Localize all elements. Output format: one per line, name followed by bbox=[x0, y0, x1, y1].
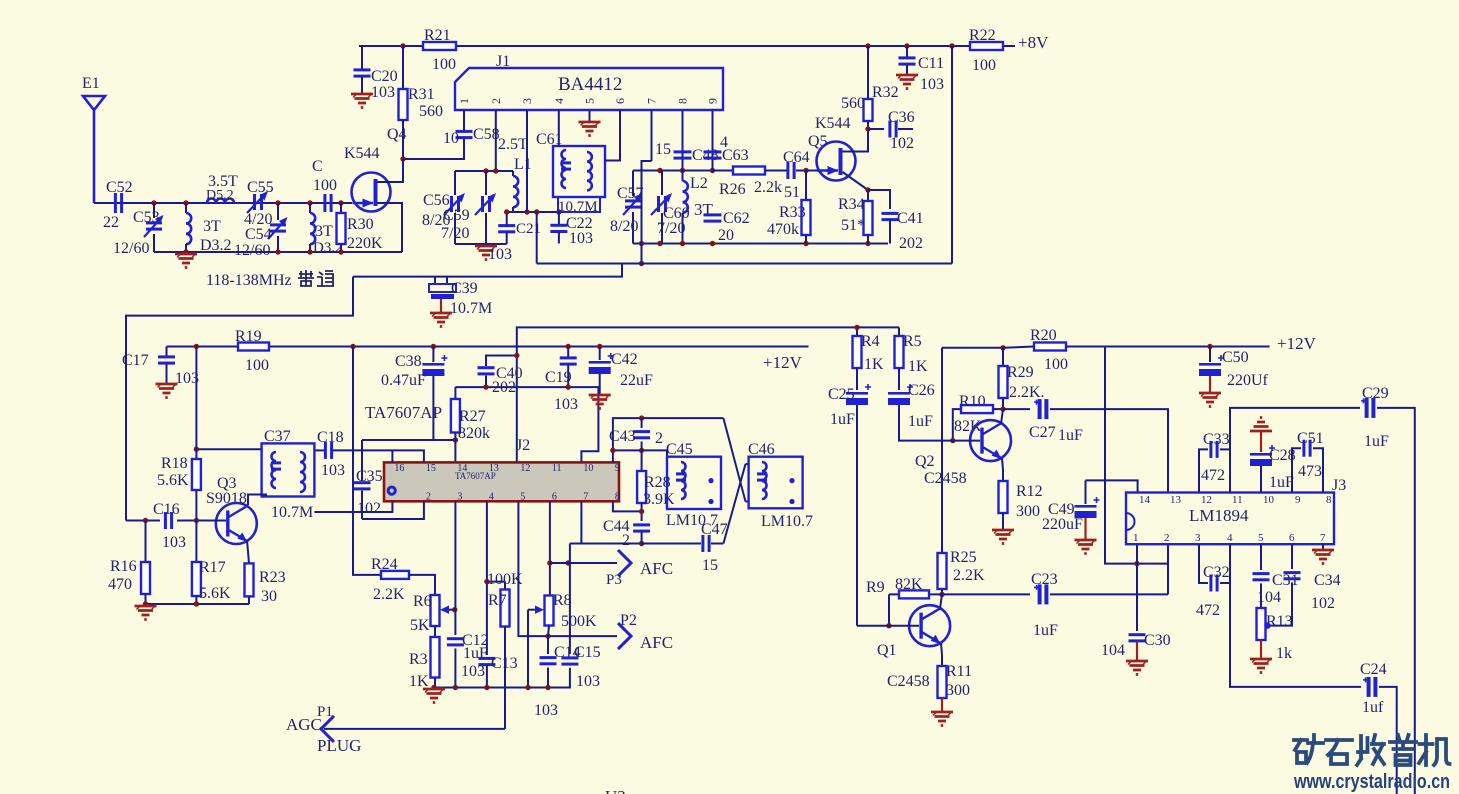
svg-text:www.crystalradio.cn: www.crystalradio.cn bbox=[1293, 771, 1450, 793]
svg-text:104: 104 bbox=[1257, 589, 1281, 606]
wire Q5 source bbox=[843, 172, 869, 190]
svg-text:3: 3 bbox=[457, 492, 462, 503]
svg-text:C26: C26 bbox=[908, 382, 935, 399]
svg-text:560: 560 bbox=[419, 103, 443, 120]
svg-text:1uF: 1uF bbox=[1269, 474, 1294, 491]
svg-text:82K: 82K bbox=[895, 576, 923, 593]
capacitor C41 bbox=[868, 190, 890, 209]
IC J3 LM1894 body bbox=[1126, 493, 1334, 545]
transformer C37 internals bbox=[272, 452, 277, 470]
wire pin3 drop bbox=[526, 110, 528, 212]
svg-text:R20: R20 bbox=[1030, 327, 1057, 344]
svg-text:C52: C52 bbox=[106, 179, 133, 196]
svg-text:14: 14 bbox=[1139, 494, 1151, 506]
svg-text:C50: C50 bbox=[1222, 349, 1249, 366]
svg-text:P2: P2 bbox=[620, 612, 637, 629]
svg-text:5: 5 bbox=[520, 492, 525, 503]
inductor L1 bbox=[512, 171, 514, 176]
resistor R16 bbox=[145, 521, 147, 563]
svg-text:C32: C32 bbox=[1203, 564, 1230, 581]
svg-text:3.9K: 3.9K bbox=[643, 491, 675, 508]
ground C39 bbox=[430, 313, 452, 327]
svg-text:R23: R23 bbox=[259, 569, 286, 586]
svg-text:2: 2 bbox=[426, 492, 431, 503]
wire B pin9 to C45 bbox=[613, 450, 667, 456]
svg-text:8: 8 bbox=[676, 98, 690, 104]
capacitor C33 bridge bbox=[1199, 449, 1208, 492]
svg-text:R7: R7 bbox=[488, 592, 507, 609]
node wireC junctions bbox=[639, 541, 644, 546]
svg-text:+8V: +8V bbox=[1018, 33, 1049, 52]
svg-text:AFC: AFC bbox=[640, 633, 673, 652]
transformer C37 bbox=[262, 443, 315, 496]
svg-text:8: 8 bbox=[1326, 494, 1332, 506]
ground tank1 bbox=[475, 246, 497, 260]
svg-text:2.2K: 2.2K bbox=[953, 567, 985, 584]
wire pin4 riser bbox=[486, 501, 488, 655]
svg-text:100: 100 bbox=[1044, 356, 1068, 373]
svg-text:51*: 51* bbox=[841, 217, 865, 234]
wire R25 column bbox=[941, 348, 943, 553]
svg-text:102: 102 bbox=[357, 500, 381, 517]
wire C15 column bbox=[569, 544, 571, 655]
svg-text:1: 1 bbox=[1133, 532, 1139, 544]
svg-text:C45: C45 bbox=[666, 441, 693, 458]
wire +8V top rail bbox=[359, 45, 1015, 47]
capacitor C38 electrolytic bbox=[432, 347, 434, 363]
svg-text:C19: C19 bbox=[545, 369, 572, 386]
svg-text:C24: C24 bbox=[1360, 661, 1387, 678]
wire P3 AFC bbox=[550, 562, 617, 564]
capacitor C59 variable bbox=[485, 171, 487, 195]
capacitor C24 bbox=[1367, 677, 1371, 697]
wire C35 top link W1 bbox=[362, 439, 456, 441]
capacitor C50 electrolytic bbox=[1209, 347, 1211, 363]
wire R8 bottom with C14 bbox=[548, 626, 549, 655]
svg-text:15: 15 bbox=[702, 557, 718, 574]
svg-text:6: 6 bbox=[1289, 532, 1295, 544]
resistor R30 bbox=[340, 203, 342, 213]
inductor L2 bbox=[682, 171, 684, 182]
svg-text:2.2K.: 2.2K. bbox=[1009, 384, 1045, 401]
resistor R4 bbox=[856, 327, 858, 336]
wire Q1 collector bbox=[940, 594, 942, 609]
svg-text:R22: R22 bbox=[969, 27, 996, 44]
resistor R24 bbox=[381, 571, 409, 579]
svg-text:7/20: 7/20 bbox=[657, 220, 685, 237]
wire C18 line to pins 16 15 bbox=[333, 450, 424, 462]
svg-text:R25: R25 bbox=[950, 549, 977, 566]
capacitor C21 bbox=[506, 212, 508, 225]
svg-text:15: 15 bbox=[655, 141, 671, 158]
node R29 top bbox=[1000, 345, 1005, 350]
svg-text:Q4: Q4 bbox=[387, 126, 407, 143]
resistor R7 bbox=[487, 581, 505, 583]
svg-text:C59: C59 bbox=[443, 207, 470, 224]
svg-text:Q1: Q1 bbox=[877, 642, 897, 659]
ground C49 bbox=[1075, 540, 1097, 554]
svg-text:9: 9 bbox=[615, 463, 620, 474]
svg-text:2: 2 bbox=[1164, 532, 1170, 544]
svg-text:10.7M: 10.7M bbox=[558, 199, 598, 215]
svg-text:R9: R9 bbox=[866, 579, 885, 596]
svg-text:5K: 5K bbox=[410, 617, 430, 634]
svg-text:C57: C57 bbox=[617, 185, 644, 202]
svg-text:100: 100 bbox=[972, 57, 996, 74]
svg-text:1uF: 1uF bbox=[1364, 433, 1389, 450]
svg-text:C55: C55 bbox=[247, 179, 274, 196]
capacitor C63 bbox=[712, 110, 714, 171]
capacitor C51 bridge bbox=[1292, 448, 1301, 492]
capacitor C 100 bbox=[323, 194, 326, 212]
svg-text:TA7607AP: TA7607AP bbox=[365, 403, 442, 422]
resistor R29 bbox=[1002, 348, 1004, 366]
wire R9 hook to base bbox=[888, 594, 890, 625]
svg-text:C35: C35 bbox=[356, 468, 383, 485]
svg-text:R16: R16 bbox=[110, 558, 137, 575]
wire +12V rail middle bbox=[167, 346, 809, 348]
svg-text:C34: C34 bbox=[1314, 572, 1341, 589]
resistor R34 bbox=[867, 190, 869, 201]
wire Q2 collector bbox=[1001, 409, 1003, 424]
resistor R6 potentiometer bbox=[431, 595, 440, 626]
svg-text:7: 7 bbox=[645, 98, 659, 104]
capacitor C47 bbox=[701, 535, 704, 552]
svg-text:10.7M: 10.7M bbox=[450, 300, 492, 317]
capacitor C22 bbox=[558, 212, 560, 225]
ground C20 bbox=[351, 94, 373, 108]
ground R13 bbox=[1250, 659, 1272, 673]
svg-text:10: 10 bbox=[1263, 494, 1275, 506]
ground C11 bbox=[896, 75, 918, 89]
svg-text:470: 470 bbox=[108, 576, 132, 593]
svg-text:7: 7 bbox=[1320, 532, 1326, 544]
svg-text:30: 30 bbox=[261, 588, 277, 605]
capacitor C55 variable bbox=[253, 194, 256, 210]
node R6 wiper junction bbox=[452, 607, 457, 612]
svg-text:4: 4 bbox=[552, 98, 566, 104]
svg-text:9: 9 bbox=[1295, 494, 1301, 506]
svg-text:D5.2: D5.2 bbox=[206, 188, 234, 203]
svg-text:R31: R31 bbox=[408, 86, 435, 103]
resistor R27 bbox=[454, 387, 456, 399]
svg-text:4: 4 bbox=[1227, 532, 1233, 544]
svg-text:BA4412: BA4412 bbox=[558, 74, 622, 95]
resistor R12 bbox=[999, 481, 1008, 513]
capacitor C19 bbox=[567, 347, 569, 358]
svg-text:K544: K544 bbox=[815, 115, 851, 132]
resistor R32 bbox=[867, 46, 869, 99]
svg-text:103: 103 bbox=[576, 673, 600, 690]
resistor R5 bbox=[898, 327, 900, 336]
node R27 bottom bbox=[453, 437, 458, 442]
wire pin3 riser with C12 bbox=[454, 501, 456, 635]
capacitor C54 variable bbox=[277, 203, 279, 220]
wire tank2 bottom rail bbox=[633, 243, 888, 245]
svg-text:1K: 1K bbox=[409, 673, 429, 690]
svg-text:C29: C29 bbox=[1362, 385, 1389, 402]
svg-text:5: 5 bbox=[583, 98, 597, 104]
svg-text:10.7M: 10.7M bbox=[271, 504, 313, 521]
svg-text:820k: 820k bbox=[458, 425, 490, 442]
wire C49 to pin14 bbox=[1086, 480, 1138, 492]
wire IF bus lower bbox=[353, 264, 622, 277]
svg-text:10: 10 bbox=[443, 130, 459, 147]
node filter bottom junctions bbox=[183, 249, 188, 254]
svg-text:22: 22 bbox=[103, 214, 119, 231]
svg-text:R10: R10 bbox=[959, 393, 986, 410]
svg-text:C53: C53 bbox=[133, 209, 160, 226]
svg-text:300: 300 bbox=[1016, 503, 1040, 520]
capacitor C57 variable bbox=[632, 171, 634, 197]
wire IF bus upper bbox=[537, 263, 952, 265]
svg-text:C54: C54 bbox=[245, 226, 272, 243]
wire R24 feed bbox=[353, 347, 381, 575]
capacitor C44 bbox=[633, 523, 650, 526]
svg-text:R5: R5 bbox=[903, 333, 922, 350]
wire Q3 base bbox=[126, 520, 160, 522]
wire Q3 bottom rail bbox=[146, 603, 250, 605]
resistor R10 bbox=[953, 409, 961, 441]
svg-text:12: 12 bbox=[520, 463, 530, 474]
wire R8 wiper bbox=[528, 609, 535, 611]
ground C28 inverted bbox=[1250, 418, 1272, 432]
node C40 junctions bbox=[514, 353, 519, 358]
capacitor C32 bridge bbox=[1199, 544, 1208, 583]
svg-text:103: 103 bbox=[321, 462, 345, 479]
capacitor C49 electrolytic bbox=[1085, 480, 1087, 504]
wire Q2 emitter to R12 bbox=[1002, 458, 1003, 481]
svg-text:8: 8 bbox=[615, 492, 620, 503]
svg-text:3T: 3T bbox=[315, 223, 333, 240]
wire to IF bus bbox=[536, 212, 538, 264]
svg-text:13: 13 bbox=[1170, 494, 1182, 506]
wire Q4 drain bbox=[378, 159, 404, 182]
wire input filter rail bbox=[94, 202, 352, 204]
resistor R19 bbox=[238, 343, 269, 351]
node R33 top bbox=[803, 168, 808, 173]
wire W5 12V branch bbox=[942, 347, 1003, 349]
node tank1 output junctions bbox=[504, 209, 509, 214]
node Q5 drain junction bbox=[865, 126, 870, 131]
svg-text:+12V: +12V bbox=[763, 353, 803, 372]
wire Q1 emitter bbox=[941, 643, 942, 666]
capacitor C36 bbox=[868, 128, 884, 130]
svg-text:R17: R17 bbox=[199, 559, 226, 576]
svg-text:12/60: 12/60 bbox=[113, 240, 149, 257]
ground C50 bbox=[1199, 393, 1221, 407]
svg-text:220K: 220K bbox=[347, 235, 383, 252]
svg-text:AFC: AFC bbox=[640, 559, 673, 578]
node Q3 collector junction bbox=[194, 447, 199, 452]
svg-text:E1: E1 bbox=[82, 75, 100, 92]
svg-text:R26: R26 bbox=[719, 181, 746, 198]
arrow P1 bbox=[321, 716, 334, 742]
node tank1 top junctions bbox=[483, 168, 488, 173]
arrow P2 AFC bbox=[618, 623, 631, 649]
svg-text:R3: R3 bbox=[409, 651, 428, 668]
svg-text:0.47uF: 0.47uF bbox=[381, 372, 426, 389]
svg-text:C33: C33 bbox=[1203, 431, 1230, 448]
svg-text:300: 300 bbox=[946, 682, 970, 699]
capacitor C17 bbox=[166, 347, 168, 357]
svg-text:5: 5 bbox=[1258, 532, 1264, 544]
wire W4 horizontal bbox=[455, 387, 598, 462]
resistor R28 bbox=[641, 450, 643, 471]
svg-text:103: 103 bbox=[162, 534, 186, 551]
svg-text:C30: C30 bbox=[1144, 632, 1171, 649]
svg-text:9: 9 bbox=[706, 98, 720, 104]
svg-text:100: 100 bbox=[313, 177, 337, 194]
wire tank2 top rail bbox=[633, 170, 713, 172]
ground R11 bbox=[931, 712, 953, 726]
wire C pin7 AFC line bbox=[570, 501, 582, 543]
wire Q1 base bbox=[857, 625, 919, 627]
svg-text:1uF: 1uF bbox=[1058, 427, 1083, 444]
svg-text:L1: L1 bbox=[514, 156, 532, 173]
resistor R23 bbox=[245, 563, 254, 596]
resistor R11 bbox=[938, 666, 947, 698]
capacitor C58 bbox=[463, 110, 465, 131]
capacitor C26 electrolytic bbox=[888, 392, 910, 395]
wire pin6 riser bbox=[549, 501, 551, 595]
svg-text:R29: R29 bbox=[1007, 364, 1034, 381]
svg-text:U2: U2 bbox=[605, 787, 626, 794]
svg-text:2.2K: 2.2K bbox=[373, 586, 405, 603]
svg-text:2: 2 bbox=[489, 98, 503, 104]
inductor 3T D3.2 second bbox=[309, 203, 311, 213]
inductor 3.5T D5.2 bbox=[207, 199, 234, 204]
node pin1 riser crossing bbox=[1134, 561, 1139, 566]
svg-text:22uF: 22uF bbox=[620, 372, 653, 389]
svg-text:R19: R19 bbox=[235, 328, 262, 345]
svg-text:100: 100 bbox=[432, 56, 456, 73]
svg-text:472: 472 bbox=[1201, 467, 1225, 484]
svg-text:220Uf: 220Uf bbox=[1227, 372, 1269, 389]
IC J2 TA7607AP body bbox=[384, 462, 619, 501]
capacitor C48 bbox=[682, 110, 684, 171]
svg-text:1uF: 1uF bbox=[1033, 622, 1058, 639]
capacitor C28 electrolytic bbox=[1260, 431, 1262, 452]
capacitor C16 bbox=[164, 512, 167, 529]
svg-text:C16: C16 bbox=[153, 501, 180, 518]
svg-text:R32: R32 bbox=[872, 84, 899, 101]
resistor R25 bbox=[938, 553, 947, 589]
wire +8V drop right bbox=[951, 46, 953, 264]
wire crossing diagonals bbox=[723, 418, 745, 501]
node top rail junctions bbox=[400, 43, 405, 48]
svg-text:C11: C11 bbox=[918, 55, 944, 72]
capacitor C13 bbox=[478, 657, 495, 660]
wire pin7 drop to bus bbox=[651, 110, 653, 161]
svg-text:220uF: 220uF bbox=[1042, 516, 1083, 533]
svg-text:+12V: +12V bbox=[1277, 334, 1317, 353]
svg-text:C: C bbox=[312, 158, 323, 175]
svg-text:K544: K544 bbox=[344, 145, 380, 162]
wire pin8 hook bbox=[613, 501, 642, 511]
svg-text:R24: R24 bbox=[371, 556, 398, 573]
label daitong glyphs bbox=[298, 270, 334, 286]
ground pin7 J3 bbox=[1322, 544, 1324, 549]
wire bus left link bbox=[126, 277, 353, 521]
svg-text:103: 103 bbox=[554, 396, 578, 413]
ground C42 bbox=[589, 395, 611, 409]
svg-text:C17: C17 bbox=[122, 352, 149, 369]
filter C45 internals bbox=[681, 462, 686, 480]
svg-text:LM10 7: LM10 7 bbox=[666, 512, 718, 529]
ground pin5 bbox=[589, 110, 591, 122]
wire Q4 source bbox=[378, 203, 403, 252]
inductor 3T D3.2 first bbox=[185, 203, 187, 213]
resistor R17 bbox=[195, 521, 197, 563]
svg-text:11: 11 bbox=[552, 463, 562, 474]
svg-text:R12: R12 bbox=[1016, 483, 1043, 500]
wire Q3 emitter bbox=[247, 540, 249, 563]
watermark kuangshi shouyinji glyphs bbox=[1294, 735, 1450, 765]
resistor R26 bbox=[713, 170, 734, 172]
svg-text:103: 103 bbox=[534, 702, 558, 719]
svg-text:100: 100 bbox=[245, 357, 269, 374]
resistor R33 bbox=[805, 171, 807, 201]
node wireB junctions bbox=[610, 448, 615, 453]
wire pin5 riser to P2 bbox=[518, 501, 617, 636]
wire pin2 to tank1 bbox=[495, 110, 497, 171]
wire upper 12V feed rail bbox=[517, 327, 899, 462]
svg-text:1: 1 bbox=[457, 98, 471, 104]
node C19 bottom bbox=[566, 384, 571, 389]
svg-text:R21: R21 bbox=[424, 27, 451, 44]
capacitor C56 variable bbox=[454, 171, 456, 195]
svg-text:C27: C27 bbox=[1029, 424, 1056, 441]
resistor R31 bbox=[402, 46, 404, 89]
svg-text:2: 2 bbox=[622, 532, 630, 549]
svg-text:R6: R6 bbox=[413, 593, 432, 610]
svg-text:3: 3 bbox=[1195, 532, 1201, 544]
svg-text:R4: R4 bbox=[861, 333, 880, 350]
node C50 top bbox=[1207, 344, 1212, 349]
node Q5 source junction bbox=[865, 187, 870, 192]
svg-text:C64: C64 bbox=[783, 149, 810, 166]
filter C46 bbox=[749, 457, 803, 509]
capacitor C53 variable bbox=[153, 203, 155, 218]
svg-text:C39: C39 bbox=[451, 280, 478, 297]
resistor R8 potentiometer bbox=[545, 596, 554, 626]
svg-text:7/20: 7/20 bbox=[441, 225, 469, 242]
wire pin6 to C61 bbox=[605, 110, 620, 161]
capacitor C23 bbox=[1038, 584, 1042, 604]
svg-text:472: 472 bbox=[1196, 602, 1220, 619]
svg-text:12: 12 bbox=[1201, 494, 1212, 506]
svg-text:LM1894: LM1894 bbox=[1189, 506, 1249, 525]
svg-text:4: 4 bbox=[489, 492, 494, 503]
capacitor C35 and box bbox=[361, 440, 363, 481]
svg-text:C62: C62 bbox=[723, 210, 750, 227]
svg-text:C42: C42 bbox=[611, 351, 638, 368]
ground Q3 stage bbox=[135, 606, 157, 620]
node +12V rail junctions bbox=[194, 344, 199, 349]
wire R8 wiper drop bbox=[527, 610, 529, 688]
svg-text:C46: C46 bbox=[748, 441, 775, 458]
filter C61 body bbox=[553, 146, 605, 197]
wire pin1 riser to C30 bbox=[1136, 544, 1138, 631]
node pin8 junction bbox=[639, 509, 644, 514]
svg-text:5.6K: 5.6K bbox=[199, 585, 231, 602]
ground filter bbox=[175, 254, 197, 268]
resistor R9 bbox=[899, 590, 929, 598]
svg-text:P3: P3 bbox=[606, 572, 622, 588]
wire Q1 collector line bbox=[889, 593, 1030, 595]
capacitor C29 bbox=[1365, 398, 1369, 418]
